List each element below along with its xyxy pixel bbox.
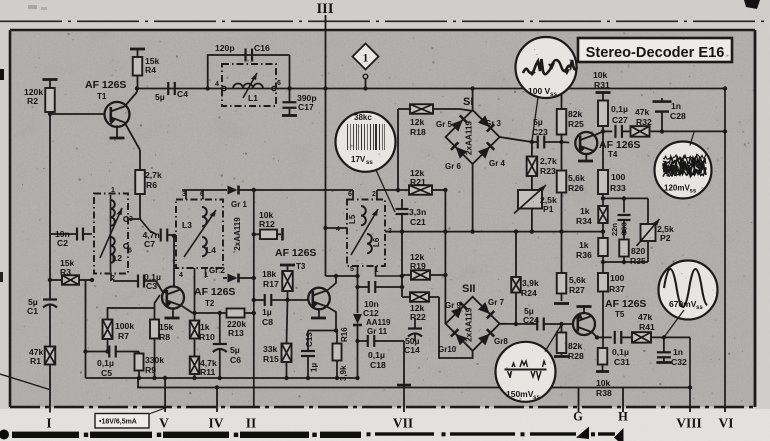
svg-text:R13: R13 (228, 328, 244, 338)
svg-text:Gr 5: Gr 5 (436, 120, 453, 129)
svg-text:2xAA119: 2xAA119 (465, 120, 474, 155)
wire osc pin3 (385, 231, 388, 233)
svg-text:120p: 120p (215, 43, 235, 53)
resistor R9 (138, 352, 140, 354)
svg-text:C18: C18 (370, 360, 386, 370)
svg-text:R27: R27 (569, 285, 585, 295)
scope 670mVss (659, 261, 718, 320)
wire input column (49, 114, 51, 280)
wire Gr1 row (185, 190, 187, 200)
terminal V (163, 376, 167, 380)
title box Stereo-Decoder E16 (578, 38, 732, 62)
terminal VI (724, 89, 726, 408)
wire node II column (253, 190, 255, 407)
svg-text:R8: R8 (159, 332, 170, 342)
rectifier SI (446, 110, 500, 164)
ground T4 (585, 154, 587, 161)
capacitor C6 (218, 311, 222, 315)
svg-text:Gr 11: Gr 11 (367, 327, 388, 336)
capacitor C24 (536, 318, 538, 331)
svg-text:15k: 15k (159, 322, 174, 332)
diode Gr2 (194, 268, 196, 313)
svg-text:C23: C23 (532, 127, 548, 137)
svg-text:AF 126S: AF 126S (599, 139, 640, 151)
svg-text:3,3n: 3,3n (409, 207, 426, 217)
svg-text:4: 4 (179, 272, 183, 279)
svg-text:R17: R17 (263, 279, 279, 289)
resistor R22 (410, 292, 429, 302)
wire T1 collector (125, 92, 138, 107)
svg-text:VII: VII (393, 416, 413, 431)
capacitor C13 (307, 331, 309, 352)
pointer 150mVss (545, 325, 562, 352)
svg-text:120mV: 120mV (664, 184, 690, 193)
resistor R12 (252, 232, 256, 236)
resistor R34 (602, 198, 604, 206)
transistor T2 (162, 287, 184, 309)
svg-text:Stereo-Decoder E16: Stereo-Decoder E16 (586, 45, 725, 61)
wire III feed (325, 89, 327, 277)
wire T4 output (603, 130, 612, 132)
svg-text:100k: 100k (115, 321, 134, 331)
svg-text:0,1µ: 0,1µ (97, 358, 114, 368)
svg-text:2xAA119: 2xAA119 (233, 217, 242, 251)
resistor R36 (602, 232, 604, 238)
svg-text:R34: R34 (576, 216, 592, 226)
resistor R28 (561, 324, 563, 333)
wire L2 pin3 (128, 218, 140, 220)
resistor R13 (227, 309, 245, 318)
svg-text:R1: R1 (30, 356, 41, 366)
svg-text:C14: C14 (404, 345, 420, 355)
svg-text:1n: 1n (671, 101, 681, 111)
wire L2 left (85, 281, 87, 379)
wire osc pin4 (326, 227, 348, 229)
svg-text:Gr 4: Gr 4 (489, 159, 506, 168)
pointer 120mVss (690, 132, 694, 146)
capacitor C4 (167, 82, 169, 95)
svg-text:C31: C31 (614, 357, 630, 367)
wire network row2 (603, 261, 648, 263)
svg-text:1: 1 (363, 53, 369, 65)
svg-text:C6: C6 (230, 355, 241, 365)
svg-text:Gr8: Gr8 (494, 337, 508, 346)
svg-text:670mV: 670mV (669, 299, 697, 309)
svg-text:Gr10: Gr10 (438, 345, 457, 354)
transistor T4 (562, 141, 570, 144)
wire T4 collector (594, 131, 603, 135)
svg-text:C13: C13 (305, 332, 314, 347)
svg-text:R41: R41 (639, 322, 655, 332)
diode Gr1 (228, 186, 239, 195)
resistor R1 (45, 347, 56, 365)
svg-text:6: 6 (128, 248, 132, 255)
resistor R6 (135, 170, 145, 194)
terminal VIII (689, 337, 691, 407)
svg-text:47k: 47k (638, 312, 653, 322)
capacitor C23 (532, 141, 538, 143)
svg-text:R23: R23 (540, 166, 556, 176)
coil L2 (94, 194, 128, 274)
svg-text:2: 2 (372, 191, 376, 198)
wire SI top (472, 89, 474, 111)
capacitor C7 (140, 219, 157, 235)
svg-text:ss: ss (366, 160, 373, 166)
capacitor C14 (414, 318, 416, 328)
resistor R16 (336, 331, 338, 344)
mark H (614, 428, 624, 441)
svg-text:AF 126S: AF 126S (194, 286, 235, 298)
svg-text:AF 126S: AF 126S (85, 79, 126, 91)
svg-text:AA119: AA119 (366, 318, 391, 327)
fold bar (12, 432, 79, 438)
svg-text:82k: 82k (568, 341, 583, 351)
svg-text:G: G (573, 410, 583, 424)
resistor R3 (48, 278, 52, 282)
terminal G (578, 388, 580, 408)
svg-text:4: 4 (215, 81, 219, 88)
svg-text:VI: VI (718, 416, 733, 431)
svg-text:AF 126S: AF 126S (605, 298, 646, 310)
capacitor C3 (110, 272, 112, 281)
resistor R19 (411, 270, 430, 280)
svg-text:100 V: 100 V (528, 86, 551, 96)
svg-text:L4: L4 (206, 245, 216, 255)
svg-text:R25: R25 (568, 119, 584, 129)
svg-text:SII: SII (462, 283, 475, 295)
svg-text:T3: T3 (296, 262, 306, 271)
svg-text:R19: R19 (410, 261, 426, 271)
svg-text:Gr 7: Gr 7 (488, 298, 505, 307)
svg-text:1µ: 1µ (310, 363, 319, 372)
svg-text:•18V/6,5mA: •18V/6,5mA (99, 419, 137, 426)
svg-text:R32: R32 (636, 117, 652, 127)
svg-text:T2: T2 (205, 299, 215, 308)
svg-text:L1: L1 (248, 93, 258, 103)
svg-text:R38: R38 (596, 388, 612, 398)
resistor R24 (515, 232, 517, 277)
wire ladder (397, 109, 399, 190)
resistor R41 (632, 332, 651, 343)
svg-text:H: H (618, 410, 628, 424)
svg-text:6: 6 (348, 191, 352, 198)
resistor R10 (192, 311, 196, 315)
svg-text:82k: 82k (568, 109, 583, 119)
svg-text:C7: C7 (144, 239, 155, 249)
scope 38kc (336, 112, 396, 172)
capacitor C18 (358, 340, 368, 342)
svg-text:2,7k: 2,7k (540, 156, 557, 166)
svg-text:T1: T1 (97, 92, 107, 101)
svg-text:1k: 1k (579, 240, 589, 250)
resistor R15 (286, 300, 288, 344)
resistor R4 (130, 48, 145, 51)
svg-text:150mV: 150mV (506, 389, 534, 399)
svg-text:C17: C17 (298, 102, 314, 112)
wire SI left (398, 136, 446, 138)
capacitor C31 (614, 331, 616, 344)
svg-text:L2: L2 (112, 253, 122, 263)
wire bus B (138, 378, 690, 388)
svg-text:Gr 9: Gr 9 (445, 301, 462, 310)
svg-text:ss: ss (690, 189, 697, 195)
svg-text:III: III (317, 1, 334, 17)
ground T1 (116, 125, 118, 138)
svg-text:C32: C32 (671, 357, 687, 367)
svg-text:II: II (246, 416, 257, 431)
svg-text:100: 100 (610, 273, 625, 283)
svg-text:C24: C24 (523, 315, 539, 325)
pointer to I (0, 374, 50, 390)
svg-text:R4: R4 (145, 65, 156, 75)
capacitor C21 (401, 190, 403, 209)
ground T5 (583, 307, 585, 313)
ground T3 (318, 310, 320, 319)
wire SII feed (444, 190, 446, 324)
terminal H (622, 388, 624, 408)
supply label (95, 414, 149, 429)
svg-text:P2: P2 (660, 233, 671, 243)
terminal VII (403, 341, 405, 407)
svg-text:R15: R15 (263, 354, 279, 364)
svg-text:R33: R33 (610, 183, 626, 193)
svg-text:17V: 17V (351, 155, 366, 164)
wire L1 loop (208, 55, 290, 89)
svg-text:R26: R26 (568, 183, 584, 193)
svg-text:C27: C27 (612, 115, 628, 125)
resistor R26 (561, 142, 563, 171)
svg-text:T5: T5 (615, 310, 625, 319)
svg-text:Gr 2: Gr 2 (209, 266, 226, 275)
svg-text:10k: 10k (593, 70, 608, 80)
svg-text:C1: C1 (27, 306, 38, 316)
scope 120mVss (655, 142, 712, 199)
svg-text:R31: R31 (594, 80, 610, 90)
svg-text:ss: ss (533, 394, 540, 401)
scope 100Vss (516, 37, 577, 98)
svg-text:L3: L3 (182, 220, 192, 230)
svg-text:3,9k: 3,9k (522, 278, 539, 288)
wire T2 collector (173, 236, 175, 287)
svg-text:ss: ss (696, 305, 703, 311)
svg-text:R35: R35 (630, 256, 646, 266)
svg-text:R11: R11 (200, 367, 216, 377)
svg-text:6: 6 (277, 80, 281, 87)
svg-text:C21: C21 (410, 217, 426, 227)
pot P1 (518, 190, 542, 209)
svg-text:18k: 18k (262, 269, 277, 279)
svg-text:2,7k: 2,7k (145, 170, 162, 180)
capacitor C12 (358, 286, 369, 288)
resistor R38 (602, 337, 604, 348)
svg-text:IV: IV (208, 416, 223, 431)
wire AM bus (388, 231, 602, 233)
capacitor C16 (244, 49, 246, 62)
svg-text:5µ: 5µ (230, 345, 240, 355)
mark G (576, 427, 589, 440)
wire bus A (86, 377, 358, 379)
capacitor C1 (49, 280, 51, 300)
svg-text:C28: C28 (670, 111, 686, 121)
svg-text:0,1µ: 0,1µ (611, 104, 628, 114)
svg-text:R3: R3 (60, 267, 71, 277)
svg-text:4: 4 (336, 226, 340, 233)
pointer 100Vss (532, 98, 538, 142)
capacitor C28 (661, 112, 663, 132)
svg-text:Gr 3: Gr 3 (485, 119, 502, 128)
svg-text:5,6k: 5,6k (568, 173, 585, 183)
wire T2 output (181, 305, 193, 313)
resistor R17 (282, 271, 293, 291)
svg-text:5,6k: 5,6k (569, 275, 586, 285)
resistor R31 (596, 91, 611, 94)
wire SII bottom loop (439, 297, 473, 358)
svg-text:T4: T4 (608, 150, 618, 159)
capacitor C27 (614, 125, 616, 138)
wire SI bottom (472, 164, 474, 232)
svg-text:R6: R6 (146, 180, 157, 190)
svg-text:820: 820 (631, 246, 646, 256)
wire main bus (137, 88, 725, 90)
svg-text:0,1µ: 0,1µ (368, 350, 385, 360)
coil L5 L6 (347, 200, 385, 267)
test point 1 (353, 44, 379, 70)
svg-text:1n: 1n (673, 347, 683, 357)
coil L3 L4 (176, 200, 223, 269)
pointer 670mVss (665, 310, 685, 337)
coil L1 (222, 64, 276, 106)
resistor R23 (531, 142, 533, 157)
pot P2 (647, 198, 649, 224)
resistor R2 (43, 78, 58, 81)
wire T5 collector (592, 332, 598, 338)
capacitor C17 (287, 86, 291, 90)
rectifier SII (446, 297, 500, 351)
wire base T1 (50, 113, 105, 115)
capacitor C8 (254, 299, 265, 301)
svg-text:ss: ss (550, 91, 557, 98)
svg-text:AF 126S: AF 126S (275, 247, 316, 259)
svg-text:33k: 33k (263, 344, 278, 354)
svg-text:P1: P1 (543, 204, 554, 214)
wire SI out (500, 137, 532, 142)
svg-text:22n: 22n (610, 223, 619, 236)
svg-text:C12: C12 (363, 308, 379, 318)
resistor R11 (190, 357, 200, 375)
svg-text:R18: R18 (410, 127, 426, 137)
svg-text:1k: 1k (200, 322, 210, 332)
wire osc pins top (352, 190, 354, 200)
svg-text:R9: R9 (145, 365, 156, 375)
svg-text:C3: C3 (146, 281, 157, 291)
resistor R27 (561, 232, 563, 273)
wire osc pin5 (357, 266, 359, 287)
svg-text:12k: 12k (410, 117, 425, 127)
svg-text:330k: 330k (145, 355, 164, 365)
capacitor C5 (86, 351, 110, 353)
scope 150mVss (496, 342, 556, 402)
svg-text:VIII: VIII (676, 416, 702, 431)
svg-text:C4: C4 (177, 89, 188, 99)
svg-text:Gr 6: Gr 6 (445, 162, 462, 171)
svg-text:2xAA119: 2xAA119 (465, 307, 474, 342)
wire C7 feed (139, 194, 141, 219)
svg-text:R10: R10 (199, 332, 215, 342)
svg-text:R16: R16 (340, 327, 349, 342)
svg-text:R28: R28 (568, 351, 584, 361)
capacitor C32 (663, 337, 665, 352)
node III line (325, 15, 327, 89)
svg-text:R24: R24 (521, 288, 537, 298)
resistor R18 (410, 104, 433, 114)
wire T1 emitter (125, 122, 141, 150)
transistor T3 (308, 288, 330, 310)
svg-text:5µ: 5µ (155, 92, 165, 102)
svg-text:C16: C16 (254, 43, 270, 53)
svg-text:1µ: 1µ (262, 307, 272, 317)
svg-text:R37: R37 (609, 284, 625, 294)
svg-text:1k: 1k (580, 206, 590, 216)
diode Gr11 (357, 287, 359, 313)
svg-text:C2: C2 (57, 238, 68, 248)
svg-text:1: 1 (111, 187, 115, 194)
resistor R37 (602, 262, 604, 273)
svg-text:R7: R7 (118, 331, 129, 341)
capacitor C33 (623, 198, 625, 212)
svg-text:0,1µ: 0,1µ (612, 347, 629, 357)
terminal I (49, 407, 51, 413)
svg-text:47k: 47k (635, 107, 650, 117)
resistor R25 (561, 89, 563, 110)
svg-text:38kc: 38kc (354, 113, 372, 122)
resistor R35 (623, 232, 625, 240)
svg-text:C8: C8 (262, 317, 273, 327)
svg-text:R21: R21 (410, 177, 426, 187)
svg-text:R12: R12 (259, 219, 275, 229)
pointer 38kc (376, 170, 395, 212)
svg-text:I: I (46, 416, 51, 431)
resistor R8 (155, 295, 161, 320)
svg-text:Gr 1: Gr 1 (231, 200, 248, 209)
svg-text:V: V (159, 416, 169, 431)
svg-text:100: 100 (611, 172, 626, 182)
svg-text:5: 5 (350, 266, 354, 273)
capacitor C2 (50, 233, 77, 235)
wire T3 collector (326, 276, 336, 292)
svg-text:L6: L6 (372, 237, 381, 247)
scan speckle (486, 41, 487, 42)
transistor T1 (105, 102, 130, 127)
resistor R21 (409, 185, 432, 195)
wire T3 out (326, 306, 336, 331)
resistor R33 (602, 131, 604, 170)
transistor T5 (573, 313, 595, 335)
svg-text:L5: L5 (348, 214, 357, 224)
svg-text:10k: 10k (596, 378, 611, 388)
resistor R7 (108, 308, 155, 320)
svg-text:R22: R22 (410, 312, 426, 322)
wire SII out (500, 323, 538, 325)
ground T2 (172, 309, 174, 319)
fold line top (0, 20, 770, 22)
terminal IV (215, 385, 219, 389)
edge marks (0, 69, 4, 80)
resistor R32 (631, 126, 650, 136)
svg-text:R2: R2 (27, 96, 38, 106)
wire network row1 (603, 197, 648, 199)
svg-text:R36: R36 (576, 250, 592, 260)
svg-text:C5: C5 (101, 368, 112, 378)
